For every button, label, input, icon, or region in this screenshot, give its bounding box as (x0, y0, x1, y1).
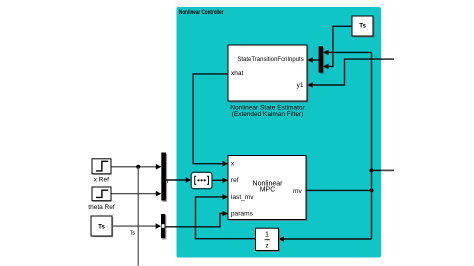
wire: mv outport stub (exits teal to the right, cropped) (372, 169, 395, 171)
svg-text:StateTransitionFcnInputs: StateTransitionFcnInputs (237, 56, 303, 63)
block name: Nonlinear State Estimator (Extended Kalman Filter) (230, 105, 305, 118)
area annotation: Nonlinear Controller (teal region) (177, 7, 382, 258)
mux M1 (r bus) (161, 153, 167, 202)
wire: mv output to right vertical (306, 189, 372, 191)
block name: theta Ref (88, 204, 115, 211)
svg-text:z: z (265, 242, 268, 249)
junction: branch on x Ref wire (136, 165, 140, 169)
wire: theta Ref to mux M1 input 2 (112, 191, 162, 197)
wire: mv feedback into mux M3 input 1 (323, 50, 372, 56)
mux M2 (params bus) (161, 214, 166, 240)
signal conversion block [...] (191, 172, 212, 188)
svg-text:last_mv: last_mv (231, 194, 254, 201)
nonlinear MPC block U2 (228, 156, 308, 222)
wire: mux M2 to MPC params input (165, 211, 228, 227)
svg-text:MPC: MPC (260, 187, 276, 194)
wire: Ts (top) to mux M3 input 2 (323, 26, 352, 69)
signal label: Ts (130, 231, 136, 237)
constant block: Ts (top, mirrored) (352, 16, 375, 38)
port arrow: StateTransitionFcnInputs input (points left into right edge) (307, 57, 313, 63)
wire: mux M1 output r to signal conversion (166, 177, 191, 183)
wire: branch down from x Ref junction (cropped at bottom) (137, 167, 139, 266)
block name: x Ref (94, 177, 109, 184)
wire: Ts constant to mux M2 (113, 223, 162, 229)
title: Nonlinear Controller (179, 10, 224, 16)
svg-text:theta Ref: theta Ref (88, 204, 115, 211)
wire: x Ref to mux M1 input 1 (112, 164, 162, 170)
svg-text:Ts: Ts (98, 224, 105, 231)
svg-text:Nonlinear Controller: Nonlinear Controller (179, 10, 224, 16)
wire: xhat from estimator to MPC x input (193, 74, 228, 167)
unit delay block 1/z (256, 228, 281, 252)
svg-text:1: 1 (265, 230, 269, 239)
svg-text:r: r (167, 178, 170, 185)
svg-text:ref: ref (231, 177, 239, 184)
wire: plant measurement stub into y1 (enters from outside right) (312, 59, 394, 85)
svg-text:(Extended Kalman Filter): (Extended Kalman Filter) (232, 111, 304, 118)
svg-text:x Ref: x Ref (94, 177, 109, 184)
step source: x Ref (92, 159, 111, 175)
svg-text:mv: mv (293, 188, 302, 195)
nonlinear state estimator block U1 (228, 45, 309, 103)
wire: signal conversion to MPC ref input (212, 178, 228, 184)
svg-text:xhat: xhat (231, 70, 243, 77)
svg-text:y1: y1 (297, 82, 304, 89)
port arrow: y1 input (points left into right edge) (307, 82, 313, 88)
wire: mux M3 output to StateTransitionFcnInputs (312, 59, 319, 61)
step source: theta Ref (92, 187, 111, 202)
mux M3 (estimator inputs, mirrored) (319, 46, 325, 73)
junction: mv branch to outport stub (370, 168, 374, 172)
signal label: r (167, 178, 170, 185)
wire: mv down to unit delay input (278, 236, 371, 242)
junction: mv to vertical feedback (370, 188, 374, 192)
wire: vertical feedback line (mv) (371, 52, 373, 239)
constant block: Ts (left) (91, 216, 113, 237)
svg-text:Ts: Ts (359, 22, 366, 29)
svg-text:Ts: Ts (130, 231, 136, 237)
svg-text:params: params (231, 210, 254, 217)
wire: unit delay output to MPC last_mv input (196, 194, 256, 239)
